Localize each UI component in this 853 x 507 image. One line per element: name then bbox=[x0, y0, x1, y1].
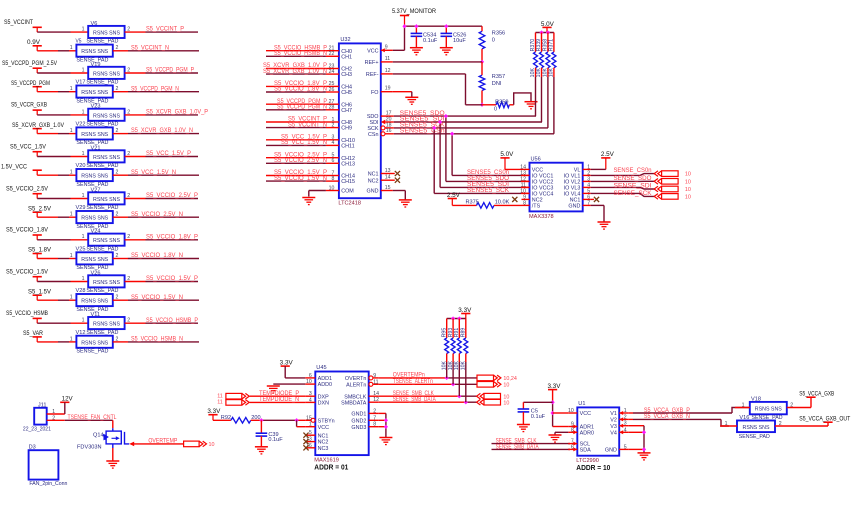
svg-text:SMBDATA: SMBDATA bbox=[341, 400, 367, 406]
svg-text:RSNS SNS: RSNS SNS bbox=[81, 299, 108, 305]
pin IO VCC4 (10) bbox=[520, 188, 553, 197]
svg-text:U45: U45 bbox=[316, 365, 326, 371]
pin NC2 (9) bbox=[522, 194, 543, 203]
svg-text:VCC: VCC bbox=[367, 48, 378, 54]
pin NC1 (13) bbox=[368, 168, 400, 178]
wire bbox=[37, 156, 88, 158]
ground bbox=[598, 222, 611, 229]
svg-text:U56: U56 bbox=[531, 157, 541, 163]
svg-text:11: 11 bbox=[217, 393, 223, 399]
svg-text:10: 10 bbox=[685, 194, 691, 200]
pin 1 bbox=[82, 67, 85, 73]
pin GND3 (8) bbox=[351, 422, 378, 431]
junction bbox=[450, 132, 454, 136]
ground bbox=[255, 447, 268, 454]
svg-text:S5_VCCPD_PGM_N: S5_VCCPD_PGM_N bbox=[277, 105, 327, 111]
svg-text:J11: J11 bbox=[38, 402, 47, 408]
node S5_VCCIO_1.5V_P bbox=[146, 276, 198, 282]
svg-text:S5_VCCINT_P: S5_VCCINT_P bbox=[146, 27, 184, 33]
pin SMBDATA (12) bbox=[341, 397, 379, 406]
pin OVERTn (9) bbox=[345, 373, 379, 382]
resistor V27 RSNS_SNS bbox=[86, 187, 124, 211]
svg-text:V27: V27 bbox=[91, 187, 101, 193]
ground bbox=[106, 461, 119, 468]
pin IO VL4 (5) bbox=[564, 188, 591, 197]
pin CH13 (6) bbox=[326, 158, 355, 167]
wire TEMPDIODE_P bbox=[250, 391, 306, 397]
wire bbox=[37, 31, 88, 33]
svg-text:REF-: REF- bbox=[366, 72, 379, 78]
svg-text:RSNS SNS: RSNS SNS bbox=[81, 174, 108, 180]
svg-text:10K: 10K bbox=[448, 361, 454, 371]
svg-text:RSNS SNS: RSNS SNS bbox=[81, 257, 108, 263]
power port 2.5V bbox=[601, 152, 614, 169]
resistor V28 RSNS_SNS bbox=[76, 288, 113, 313]
power port 1.5V_VCC bbox=[1, 164, 42, 175]
svg-text:12V: 12V bbox=[62, 397, 73, 403]
wire SENSE_SCK bbox=[591, 191, 655, 197]
pin 1 bbox=[70, 295, 73, 301]
svg-text:S5_VCCINT_N: S5_VCCINT_N bbox=[131, 45, 169, 51]
wire bbox=[125, 156, 198, 158]
svg-text:V20: V20 bbox=[76, 163, 86, 169]
svg-text:OVERTEMPn: OVERTEMPn bbox=[393, 373, 425, 379]
junction bbox=[438, 120, 442, 124]
resistor R370 10K bbox=[530, 33, 537, 117]
wire S5_VCCINT_N bbox=[266, 122, 327, 128]
svg-text:LTC2990: LTC2990 bbox=[576, 458, 599, 464]
pin ADR0 (8) bbox=[568, 427, 594, 436]
svg-text:R371: R371 bbox=[549, 39, 555, 52]
svg-text:OVERTEMP: OVERTEMP bbox=[148, 439, 177, 445]
svg-text:NC2: NC2 bbox=[318, 440, 329, 446]
pin 1 bbox=[735, 403, 750, 409]
pin 1 bbox=[720, 421, 737, 427]
wire bbox=[553, 412, 569, 414]
svg-text:ADR0: ADR0 bbox=[580, 430, 594, 436]
svg-text:R91: R91 bbox=[454, 328, 460, 338]
svg-text:GND3: GND3 bbox=[351, 425, 366, 431]
svg-text:S5_VCCIO_2.5V: S5_VCCIO_2.5V bbox=[6, 186, 48, 192]
svg-text:10K: 10K bbox=[536, 68, 542, 78]
power port S5_VCCIO_2.5V bbox=[6, 186, 48, 198]
wire S5_VCCIO_2.5V_N bbox=[266, 158, 327, 164]
resistor R371 10K bbox=[549, 33, 556, 134]
pin 1 bbox=[82, 276, 85, 282]
pin CH3 (24) bbox=[326, 69, 352, 78]
svg-text:S5_VCCIO_HSMB_P: S5_VCCIO_HSMB_P bbox=[146, 318, 198, 324]
pin V2 (2) bbox=[610, 414, 628, 423]
svg-text:3.3V: 3.3V bbox=[548, 384, 561, 390]
pin CH11 (4) bbox=[326, 140, 355, 149]
pin REF+ (11) bbox=[365, 56, 393, 66]
svg-text:S5_VCCIO_2.5V_N: S5_VCCIO_2.5V_N bbox=[274, 158, 327, 164]
svg-text:12: 12 bbox=[385, 68, 391, 74]
pin CSn (16) bbox=[368, 128, 394, 138]
junction bbox=[384, 418, 388, 422]
svg-text:10uF: 10uF bbox=[453, 38, 466, 44]
transistor Q14 FDV303N bbox=[77, 428, 129, 450]
wire bbox=[514, 93, 531, 105]
wire bbox=[112, 448, 114, 461]
wire bbox=[37, 114, 88, 116]
power port 5.37V_MONITOR bbox=[392, 9, 437, 26]
resistor V16 RSNS_SNS bbox=[737, 421, 775, 433]
pin V4 (4) bbox=[610, 427, 628, 436]
wire OVERTEMPn bbox=[379, 373, 477, 379]
junction bbox=[480, 103, 484, 107]
no-connect NC1 bbox=[591, 197, 599, 202]
no-connect NC2 bbox=[303, 439, 308, 444]
wire S5_VCC_1.5V_N bbox=[266, 140, 327, 146]
wire bbox=[393, 74, 482, 105]
svg-text:SENSE_SDI: SENSE_SDI bbox=[614, 184, 652, 190]
svg-text:RSNS SNS: RSNS SNS bbox=[81, 132, 108, 138]
svg-text:TEMPDIODE_N: TEMPDIODE_N bbox=[259, 397, 299, 403]
svg-text:R89: R89 bbox=[461, 328, 467, 338]
pin CH6 (27) bbox=[326, 99, 352, 108]
resistor R95 10K bbox=[441, 319, 448, 378]
pin NC3 (16) bbox=[305, 443, 328, 452]
pin 2 bbox=[116, 86, 119, 92]
svg-text:S5_VCCPD_PGM_P: S5_VCCPD_PGM_P bbox=[146, 68, 194, 74]
svg-text:S5_VCC_1.5V_N: S5_VCC_1.5V_N bbox=[281, 140, 327, 146]
pin 2 bbox=[116, 253, 119, 259]
pin VL (1) bbox=[574, 164, 591, 173]
wire SENSE5_SCK bbox=[434, 128, 529, 194]
pin 2 bbox=[127, 193, 130, 199]
sheet ref 10,24 bbox=[503, 376, 517, 382]
node S5_VCCIO_1.8V_P bbox=[146, 234, 198, 240]
pin SDA (6) bbox=[568, 444, 591, 453]
wire bbox=[37, 174, 76, 176]
power port S5_VCCR_GXB bbox=[11, 103, 47, 115]
wire SENSE_SDO bbox=[591, 176, 655, 182]
label ADDR = 10 bbox=[576, 465, 610, 472]
svg-text:V21: V21 bbox=[91, 145, 101, 151]
sheet ref 10 bbox=[503, 394, 509, 400]
pin ADD1 (6) bbox=[305, 373, 332, 382]
svg-text:S5_VCC_1.5V: S5_VCC_1.5V bbox=[10, 144, 46, 150]
svg-text:10: 10 bbox=[685, 172, 691, 178]
svg-text:NC2: NC2 bbox=[368, 178, 379, 184]
pin 2 bbox=[116, 295, 119, 301]
wire S5_VCCIO_HSMB_P bbox=[266, 45, 327, 51]
wire SENSE5_SDO bbox=[446, 116, 530, 182]
pin CH12 (5) bbox=[326, 153, 355, 162]
svg-text:S5_VCCIO_1.5V_N: S5_VCCIO_1.5V_N bbox=[274, 176, 327, 182]
wire bbox=[37, 341, 76, 343]
svg-text:1: 1 bbox=[82, 109, 85, 115]
wire SENSE_SMB_CLK bbox=[492, 439, 571, 445]
svg-text:CH15: CH15 bbox=[341, 179, 355, 185]
wire S5_VCCIO_HSMB_N bbox=[266, 51, 327, 57]
svg-text:V4: V4 bbox=[610, 430, 617, 436]
wire bbox=[37, 198, 88, 200]
pin 2 bbox=[116, 45, 119, 51]
label SENSE_PAD bbox=[739, 415, 782, 421]
junction bbox=[539, 30, 543, 34]
svg-text:RSNS SNS: RSNS SNS bbox=[93, 71, 120, 77]
svg-text:RSNS SNS: RSNS SNS bbox=[81, 340, 108, 346]
capacitor C526 10uF bbox=[441, 26, 467, 47]
pin 1 bbox=[70, 45, 73, 51]
capacitor C534 0.1uF bbox=[411, 26, 438, 47]
pin 2 bbox=[116, 170, 119, 176]
resistor V25 RSNS_SNS bbox=[76, 246, 113, 271]
svg-text:RSNS SNS: RSNS SNS bbox=[755, 407, 782, 413]
svg-text:CSn: CSn bbox=[368, 132, 379, 138]
svg-text:D3: D3 bbox=[29, 445, 36, 451]
wire bbox=[125, 114, 198, 116]
power port 2.5V bbox=[447, 193, 460, 206]
power port S5_VCCIO_1.8V bbox=[6, 228, 48, 240]
svg-text:0.1uF: 0.1uF bbox=[531, 414, 546, 420]
wire SENSE_SMB_CLK bbox=[379, 391, 477, 397]
svg-text:TSENSE_FAN_CNTL: TSENSE_FAN_CNTL bbox=[68, 415, 118, 421]
svg-text:SENSE5_SCK: SENSE5_SCK bbox=[467, 188, 509, 194]
wire TSENSE_ALERTn bbox=[379, 379, 477, 385]
svg-text:SENSE_SDO: SENSE_SDO bbox=[614, 176, 652, 182]
ground bbox=[638, 453, 651, 460]
svg-text:RSNS SNS: RSNS SNS bbox=[93, 31, 120, 37]
off-page connector TEMPDIODE_N bbox=[226, 400, 249, 406]
pin CH5 (26) bbox=[326, 87, 352, 96]
svg-text:10: 10 bbox=[685, 179, 691, 185]
resistor R356 0 bbox=[479, 26, 505, 62]
svg-text:1: 1 bbox=[70, 86, 73, 92]
svg-text:RSNS SNS: RSNS SNS bbox=[743, 425, 770, 431]
wire S5_VCCIO_1.8V_P bbox=[266, 81, 327, 87]
svg-text:TEMPDIODE_P: TEMPDIODE_P bbox=[259, 391, 299, 397]
svg-text:/TS: /TS bbox=[532, 204, 541, 210]
wire bbox=[37, 216, 76, 218]
svg-text:S5_VCC_1.5V_P: S5_VCC_1.5V_P bbox=[146, 151, 191, 157]
resistor V20 RSNS_SNS bbox=[76, 163, 113, 188]
pin VCC (14) bbox=[520, 164, 543, 173]
pin CH10 (3) bbox=[326, 135, 355, 144]
svg-text:0.1uF: 0.1uF bbox=[423, 38, 438, 44]
svg-text:19: 19 bbox=[385, 86, 391, 92]
wire SENSE_SDI bbox=[591, 184, 655, 190]
pin NC1 (5) bbox=[305, 430, 328, 439]
wire S5_VCCA_GXB_P bbox=[628, 408, 750, 414]
node S5_VCCINT_P bbox=[146, 27, 184, 33]
resistor V17 RSNS_SNS bbox=[76, 80, 113, 105]
pin 2 bbox=[127, 109, 130, 115]
off-page connector OVERTEMP bbox=[184, 441, 207, 447]
power port 3.3V bbox=[458, 308, 471, 319]
pin 1 bbox=[82, 27, 85, 33]
pin SCL (7) bbox=[568, 439, 590, 448]
wire bbox=[251, 419, 305, 421]
svg-text:5.0V: 5.0V bbox=[500, 152, 513, 158]
sheet ref 10 bbox=[685, 179, 691, 185]
pin 2 bbox=[127, 27, 130, 33]
off-page connector SENSE_SMB_DATA bbox=[477, 399, 501, 405]
svg-text:R375: R375 bbox=[466, 200, 479, 206]
svg-text:2.5V: 2.5V bbox=[601, 152, 614, 158]
wire S5_VCCIO_1.5V_N bbox=[266, 176, 327, 182]
wire bbox=[297, 420, 306, 426]
wire bbox=[125, 322, 198, 324]
wire S5_VCCIO_2.5V_P bbox=[266, 152, 327, 158]
node S5_XCVR_GXB_1.0V_N bbox=[131, 128, 193, 134]
svg-text:DNI: DNI bbox=[492, 81, 502, 87]
resistor V6 RSNS_SNS bbox=[86, 21, 124, 45]
wire OVERTEMP bbox=[129, 439, 183, 447]
wire bbox=[113, 341, 199, 343]
junction bbox=[457, 394, 461, 398]
junction bbox=[642, 447, 646, 451]
svg-text:10: 10 bbox=[685, 187, 691, 193]
svg-text:S5_VCCA_GXB_P: S5_VCCA_GXB_P bbox=[644, 408, 690, 414]
svg-text:3.3V: 3.3V bbox=[280, 360, 293, 366]
svg-text:3.3V: 3.3V bbox=[207, 409, 220, 415]
pin 2 bbox=[116, 212, 119, 218]
svg-text:S5_2.5V: S5_2.5V bbox=[28, 206, 51, 212]
svg-text:NC3: NC3 bbox=[318, 446, 329, 452]
svg-text:GND2: GND2 bbox=[351, 418, 366, 424]
resistor R357 DNI bbox=[479, 62, 505, 105]
wire bbox=[379, 419, 386, 421]
svg-text:0.9V: 0.9V bbox=[27, 40, 40, 46]
svg-text:R359: R359 bbox=[495, 100, 508, 106]
svg-text:V28: V28 bbox=[76, 288, 86, 294]
wire bbox=[628, 431, 644, 433]
level translator U56 MAX3378 body bbox=[529, 157, 583, 220]
wire bbox=[213, 419, 231, 421]
svg-text:S5_VCCA_GXB_OUT: S5_VCCA_GXB_OUT bbox=[799, 417, 850, 423]
wire bbox=[591, 205, 604, 221]
wire S5_VCCINT_P bbox=[266, 117, 327, 123]
label ADDR = 01 bbox=[314, 465, 348, 472]
power port 3.3V bbox=[207, 409, 220, 420]
svg-text:RSNS SNS: RSNS SNS bbox=[93, 155, 120, 161]
wire bbox=[113, 216, 199, 218]
wire bbox=[37, 91, 76, 93]
wire bbox=[523, 402, 552, 409]
svg-text:1: 1 bbox=[82, 193, 85, 199]
svg-text:SENSE_SMB_DATA: SENSE_SMB_DATA bbox=[393, 397, 436, 403]
wire SENSE5_CSn bbox=[394, 129, 554, 135]
svg-text:V29: V29 bbox=[76, 205, 86, 211]
svg-text:V22: V22 bbox=[76, 122, 86, 128]
svg-text:V25: V25 bbox=[76, 246, 86, 252]
power port S5_VAR bbox=[23, 331, 44, 342]
svg-text:S5_VCCR_GXB: S5_VCCR_GXB bbox=[11, 103, 47, 109]
wire bbox=[393, 26, 405, 50]
resistor R93 10K bbox=[448, 319, 455, 385]
svg-text:Q14: Q14 bbox=[93, 433, 104, 439]
svg-text:ADD1: ADD1 bbox=[318, 376, 332, 382]
pin 2 bbox=[127, 234, 130, 240]
svg-text:22_23_2021: 22_23_2021 bbox=[23, 427, 51, 433]
no-connect NC2 bbox=[512, 197, 517, 202]
svg-text:CH11: CH11 bbox=[341, 144, 354, 150]
svg-text:S5_VCCIO_1.5V_N: S5_VCCIO_1.5V_N bbox=[131, 295, 183, 301]
svg-text:DXN: DXN bbox=[318, 401, 329, 407]
svg-text:1: 1 bbox=[70, 336, 73, 342]
svg-text:10: 10 bbox=[503, 383, 509, 389]
ground bbox=[517, 425, 530, 432]
pin 1 bbox=[82, 234, 85, 240]
resistor R339 10K bbox=[536, 33, 543, 123]
junction bbox=[550, 400, 554, 404]
svg-text:1: 1 bbox=[70, 170, 73, 176]
power port 3.3V bbox=[280, 360, 293, 378]
svg-text:S5_1.8V: S5_1.8V bbox=[28, 248, 51, 254]
svg-text:1: 1 bbox=[70, 45, 73, 51]
svg-text:FDV303N: FDV303N bbox=[77, 444, 102, 450]
sheet ref 11 bbox=[217, 399, 223, 405]
svg-text:2.5V: 2.5V bbox=[447, 193, 460, 199]
junction bbox=[480, 60, 484, 64]
node S5_VCCIO_2.5V_N bbox=[131, 212, 183, 218]
junction bbox=[444, 24, 448, 28]
node S5_XCVR_GXB_1.0V_P bbox=[146, 110, 208, 116]
svg-text:CH13: CH13 bbox=[341, 161, 355, 167]
pin SDI (20) bbox=[370, 116, 394, 126]
pin 2 bbox=[775, 421, 828, 427]
pin ALERTn (11) bbox=[346, 379, 379, 388]
svg-text:V11: V11 bbox=[91, 312, 101, 318]
pin 2 bbox=[127, 276, 130, 282]
sheet ref 10 bbox=[685, 194, 691, 200]
pin IO VCC2 (12) bbox=[520, 176, 553, 185]
power port 5.0V bbox=[500, 152, 513, 169]
pin IO VCC1 (13) bbox=[520, 170, 553, 179]
sheet ref 10 bbox=[503, 400, 509, 406]
svg-text:V18: V18 bbox=[751, 396, 761, 402]
svg-text:1: 1 bbox=[70, 253, 73, 259]
wire S5_VCC_1.5V_P bbox=[266, 135, 327, 141]
svg-text:RSNS SNS: RSNS SNS bbox=[81, 49, 108, 55]
wire bbox=[113, 50, 199, 52]
svg-text:0: 0 bbox=[492, 37, 495, 43]
power port S5_VCCIO_1.5V bbox=[6, 269, 48, 281]
svg-text:V1: V1 bbox=[610, 411, 617, 417]
wire S5_XCVR_GXB_1.0V_N bbox=[263, 69, 327, 75]
power port S5_VCCINT bbox=[4, 20, 42, 32]
svg-text:COM: COM bbox=[341, 189, 354, 195]
capacitor C5 0.1uF bbox=[518, 408, 546, 424]
svg-text:V6: V6 bbox=[91, 21, 98, 27]
svg-text:S5_VCCIO_1.8V_N: S5_VCCIO_1.8V_N bbox=[131, 253, 183, 259]
wire bbox=[393, 92, 412, 97]
wire S5_VCCA_GXB_N bbox=[628, 414, 729, 426]
pin CH0 (21) bbox=[326, 46, 352, 55]
wire S5_VCCPD_PGM_N bbox=[266, 105, 327, 111]
resistor R89 10K bbox=[461, 319, 468, 403]
svg-text:1: 1 bbox=[70, 295, 73, 301]
pin ADD0 (10) bbox=[305, 379, 332, 388]
svg-text:U32: U32 bbox=[340, 37, 350, 43]
svg-text:S5_VCCIO_HSMB_N: S5_VCCIO_HSMB_N bbox=[274, 51, 327, 57]
junction bbox=[445, 376, 449, 380]
wire bbox=[505, 168, 522, 170]
pin SCK (18) bbox=[367, 122, 393, 132]
svg-text:S5_VCCA_GXB_N: S5_VCCA_GXB_N bbox=[644, 414, 690, 420]
svg-text:S5_VCCA_GXB: S5_VCCA_GXB bbox=[799, 392, 834, 398]
svg-text:CH3: CH3 bbox=[341, 72, 352, 78]
sheet ref 10 bbox=[685, 187, 691, 193]
svg-text:0.1uF: 0.1uF bbox=[268, 437, 283, 443]
svg-text:VCC: VCC bbox=[580, 411, 591, 417]
svg-text:R356: R356 bbox=[492, 30, 505, 36]
svg-text:1.5V_VCC: 1.5V_VCC bbox=[1, 164, 28, 170]
wire bbox=[113, 91, 199, 93]
